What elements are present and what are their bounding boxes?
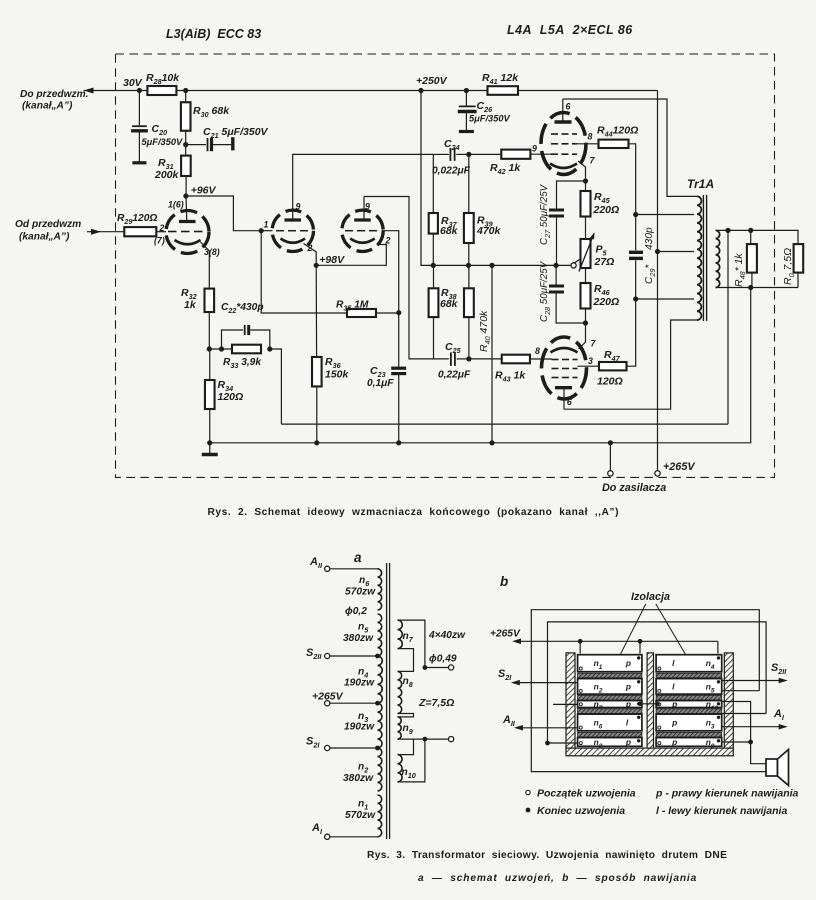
- wire: B+ vertical from R41 to +265V terminal: [657, 91, 659, 471]
- wire: V3 anode feed line: [364, 197, 449, 359]
- svg-text:470k: 470k: [476, 225, 502, 237]
- resistor R33 3.9k: [232, 345, 261, 354]
- transformer Tr1A primary winding: [697, 196, 701, 320]
- node: C22 left junction: [219, 346, 224, 351]
- wire: R47 to C29 vertical: [627, 299, 636, 366]
- svg-text:+96V: +96V: [191, 185, 217, 197]
- wire: n10 top jog: [398, 739, 414, 755]
- node: R35/C23/V3-grid junction: [396, 310, 401, 315]
- svg-text:190zw: 190zw: [344, 678, 375, 689]
- svg-text:5μF/350V: 5μF/350V: [142, 137, 184, 147]
- svg-text:380zw: 380zw: [343, 633, 374, 644]
- speaker symbol: [766, 759, 778, 776]
- wire: n9 end to speaker junction: [722, 741, 751, 743]
- capacitor C23 0.1uF: [398, 313, 400, 368]
- svg-text:190zw: 190zw: [344, 722, 375, 733]
- resistor R29 120ohm: [124, 227, 156, 236]
- svg-text:+98V: +98V: [319, 254, 345, 266]
- wire: outer loop 2: [548, 622, 767, 743]
- svg-text:9: 9: [296, 202, 301, 212]
- svg-text:C26: C26: [477, 100, 494, 114]
- wire: n8 bottom to n9 top jog: [398, 714, 414, 717]
- svg-text:S2II: S2II: [771, 662, 787, 676]
- svg-text:b: b: [500, 574, 508, 589]
- svg-text:C24: C24: [444, 138, 460, 152]
- svg-text:C21 5μF/350V: C21 5μF/350V: [203, 126, 269, 140]
- svg-text:p: p: [671, 717, 677, 727]
- winding layer n7 left stack: [578, 701, 642, 708]
- svg-text:R47: R47: [604, 349, 621, 363]
- wire: ground bus: [210, 442, 752, 444]
- svg-text:Tr1A: Tr1A: [687, 177, 714, 191]
- terminal: secondary tap 1: [423, 665, 428, 670]
- svg-text:30V: 30V: [123, 77, 143, 89]
- svg-text:1k: 1k: [184, 299, 197, 311]
- svg-text:2: 2: [159, 223, 165, 233]
- winding layer n10 right stack: [656, 701, 722, 708]
- pentode V4 grid dashes g1: [551, 153, 558, 155]
- resistor R32 1k: [205, 289, 215, 312]
- terminal: +265V pin: [655, 471, 660, 476]
- wire: n3 layer left stub: [553, 703, 578, 705]
- core bobbin hatched left leg: [566, 653, 575, 748]
- wire: V1 cathode to R32: [201, 242, 210, 289]
- wire: loop1 into n5 end: [722, 690, 759, 692]
- svg-text:AI: AI: [311, 822, 323, 836]
- resistor R47 120ohm: [599, 362, 627, 370]
- svg-text:AII: AII: [309, 556, 323, 570]
- svg-text:220Ω: 220Ω: [593, 204, 620, 216]
- wire: outer loop 1: [531, 610, 766, 772]
- svg-text:n8: n8: [403, 676, 413, 689]
- pentode V5 anode bar and bottom lead pin 6: [555, 386, 572, 389]
- svg-text:C25: C25: [445, 341, 462, 355]
- svg-text:Koniec uzwojenia: Koniec uzwojenia: [537, 805, 625, 817]
- svg-text:C23: C23: [370, 365, 386, 379]
- insulation layer left 4: [578, 732, 642, 737]
- svg-text:R35 1M: R35 1M: [336, 300, 369, 313]
- svg-text:p: p: [625, 737, 631, 747]
- svg-text:S2I: S2I: [498, 668, 512, 682]
- wire: R43 to lower pentode grid: [530, 358, 552, 360]
- svg-text:R30 68k: R30 68k: [193, 105, 230, 119]
- wire: wiper line to P5: [571, 260, 580, 266]
- svg-text:R45: R45: [594, 191, 611, 205]
- winding layer n8 left stack: [578, 738, 642, 747]
- svg-text:p - prawy kierunek nawijania: p - prawy kierunek nawijania: [655, 788, 799, 800]
- capacitor C27 50uF/25V: [549, 209, 564, 212]
- svg-text:+265V: +265V: [663, 461, 695, 473]
- svg-text:R46: R46: [594, 283, 611, 297]
- core bobbin hatched centre leg: [647, 653, 653, 748]
- winding n9 secondary: [398, 717, 402, 739]
- node: centre tap at B+ vertical: [655, 249, 660, 254]
- wire: V3 cathode to +98V row: [316, 245, 386, 266]
- node: ground bus left end: [207, 440, 212, 445]
- svg-text:p: p: [625, 681, 631, 691]
- resistor R28 10k: [147, 86, 176, 95]
- winding layer n2 left stack: [578, 679, 642, 695]
- wire: cathode node to C22/R33 branch: [209, 348, 232, 350]
- svg-text:C27 50μF/25V: C27 50μF/25V: [539, 183, 552, 245]
- terminal S2II arrow right: [722, 680, 783, 682]
- node: C23 at ground bus: [396, 440, 401, 445]
- node: R37/R38 junction: [431, 263, 436, 268]
- svg-text:p: p: [625, 658, 631, 668]
- svg-text:R36: R36: [325, 356, 342, 370]
- svg-text:68k: 68k: [440, 298, 459, 310]
- capacitor C21 5uF/350V: [186, 144, 206, 146]
- svg-text:4×40zw: 4×40zw: [428, 630, 466, 641]
- triode V3 L3 envelope: [342, 210, 383, 251]
- wire: n10 end to speaker junction: [722, 702, 751, 743]
- svg-text:430p: 430p: [644, 227, 655, 250]
- pentode V4 anode bar and top lead pin 6: [555, 120, 572, 123]
- svg-text:R43 1k: R43 1k: [495, 370, 526, 384]
- capacitor C26 5uF/350V with chassis bar: [465, 91, 467, 106]
- insulation layer right 3: [656, 709, 722, 714]
- node: R30/R31/C21 junction: [183, 142, 188, 147]
- wire: V2 grid to R35: [261, 231, 347, 313]
- node: R39/R40 junction: [466, 263, 471, 268]
- wire: V4 anode top line to transformer: [563, 99, 697, 196]
- capacitor C28 50uF/25V: [555, 265, 557, 284]
- svg-text:3: 3: [588, 356, 593, 366]
- wire: R44 to C29 vertical: [629, 144, 636, 215]
- svg-text:Do przedwzm.: Do przedwzm.: [20, 89, 89, 100]
- svg-text:p: p: [671, 699, 677, 709]
- wire: row ground branch down to bus: [491, 265, 493, 442]
- svg-text:Początek uzwojenia: Początek uzwojenia: [537, 788, 636, 800]
- capacitor C24 0.022uF: [433, 153, 448, 155]
- svg-text:1: 1: [264, 220, 269, 230]
- pentode V5 grid dashes g3: [552, 377, 559, 379]
- winding n6 570zw: [378, 569, 382, 610]
- triode V2 L3 envelope: [272, 210, 313, 251]
- insulation layer left 2: [578, 695, 642, 700]
- node: R48 top junction: [748, 228, 753, 233]
- svg-text:120Ω: 120Ω: [597, 376, 623, 388]
- wire: secondary bottom wire: [716, 287, 798, 289]
- svg-text:C29*: C29*: [644, 264, 657, 284]
- svg-text:9: 9: [532, 144, 537, 154]
- wire: NFB vertical from secondary to feedback line: [727, 230, 729, 424]
- svg-text:Z=7,5Ω: Z=7,5Ω: [418, 697, 454, 709]
- capacitor C29* 430p across screen taps: [635, 215, 637, 251]
- node: R33 right junction: [267, 346, 272, 351]
- wire: R42 to upper pentode grid: [530, 153, 552, 155]
- transformer Tr1A core: [702, 195, 704, 321]
- winding n1 570zw: [378, 795, 382, 837]
- svg-text:AI: AI: [773, 708, 785, 722]
- insulation layer right 2: [656, 695, 722, 700]
- resistor R48* 1k: [750, 230, 752, 244]
- svg-text:R33 3,9k: R33 3,9k: [223, 357, 262, 370]
- svg-text:+265V: +265V: [490, 629, 521, 640]
- svg-text:(kanał„A”): (kanał„A”): [19, 232, 70, 243]
- wire: n7 bottom to n8 top jog: [398, 649, 414, 672]
- svg-text:(7): (7): [154, 236, 165, 246]
- legend: poczatek uzwojenia: [526, 790, 530, 794]
- capacitor C22* 430p parallel loop: [222, 330, 244, 349]
- triode V3 cathode arc: [350, 239, 375, 243]
- wire: n9 bottom to terminal 2: [398, 738, 425, 740]
- svg-text:9: 9: [365, 202, 370, 212]
- node: +250V feed junction: [418, 88, 423, 93]
- svg-text:n10: n10: [402, 767, 416, 780]
- wire: V2 cathode to +98V node: [304, 244, 317, 266]
- node: C24/R39/R42 junction: [466, 152, 471, 157]
- resistor R39 470k: [468, 154, 470, 213]
- wire: V5 cathode pin 7 to bias node: [579, 323, 586, 349]
- svg-text:l - lewy kierunek nawijania: l - lewy kierunek nawijania: [656, 805, 787, 817]
- node: C27/C28 junction: [554, 263, 559, 268]
- capacitor C20 5uF/350V with chassis bar: [138, 91, 140, 126]
- svg-text:C22*430p: C22*430p: [221, 302, 264, 315]
- resistor R31 200k: [185, 145, 187, 156]
- wire: V5 anode line to transformer: [564, 320, 697, 409]
- resistor R36 150k: [315, 265, 317, 357]
- core bobbin hatched bottom bar: [566, 748, 733, 756]
- svg-text:R44120Ω: R44120Ω: [597, 125, 638, 139]
- resistor R41 12k: [488, 86, 519, 95]
- legend: koniec uzwojenia: [526, 808, 531, 813]
- svg-text:C20: C20: [152, 123, 168, 137]
- svg-text:27Ω: 27Ω: [594, 256, 615, 268]
- terminal: secondary tap 2: [423, 737, 428, 742]
- terminal: Do zasilacza pin: [609, 443, 611, 471]
- wire: input from preamp with arrow Od przedwzm: [87, 231, 124, 233]
- node: +98V cathode node: [314, 263, 319, 268]
- insulation layer left 3: [578, 709, 642, 714]
- transformer Tr1A secondary winding: [716, 230, 720, 287]
- wire: divider row to wiper: [433, 264, 571, 266]
- triode V1 cathode arc: [175, 240, 201, 244]
- dashed enclosure border of amplifier unit: [116, 54, 775, 477]
- insulation layer left 1: [578, 673, 642, 678]
- insulation layer right 4: [656, 732, 722, 737]
- pentode V4 grid dashes g3: [551, 133, 558, 135]
- svg-text:+250V: +250V: [416, 75, 448, 87]
- svg-text:Od przedwzm: Od przedwzm: [15, 219, 81, 230]
- node: 30V junction: [137, 88, 142, 93]
- wire: V2 grid dash-dot line: [261, 230, 272, 232]
- pentode V5 ECL86 envelope: [542, 337, 587, 399]
- wire: upper screen tap line: [636, 214, 694, 216]
- svg-text:a: a: [354, 550, 362, 565]
- svg-text:220Ω: 220Ω: [593, 296, 620, 308]
- winding layer n6 left stack: [578, 714, 642, 731]
- wire: +250V feed vertical to divider row: [421, 91, 433, 266]
- svg-text:R48* 1k: R48* 1k: [733, 253, 747, 287]
- wire: n7 top to terminal bus: [398, 620, 425, 667]
- svg-text:5μF/350V: 5μF/350V: [469, 114, 511, 124]
- svg-text:8: 8: [588, 132, 593, 142]
- winding n2 380zw: [378, 748, 382, 791]
- node: +265V branch to n1 start: [578, 639, 583, 644]
- svg-text:120Ω: 120Ω: [218, 391, 244, 403]
- wire: loop2 into n3 end: [722, 713, 766, 715]
- wire: n7 to n10 link across centre leg: [640, 703, 658, 705]
- wire: secondary bottom to ground bus: [750, 288, 752, 443]
- svg-text:0,1μF: 0,1μF: [367, 378, 394, 389]
- triode V1 anode electrode: [179, 220, 196, 223]
- wire: bias node to C27: [557, 181, 586, 209]
- node: row ground branch at bus: [489, 440, 494, 445]
- svg-text:L4A L5A 2×ECL 86: L4A L5A 2×ECL 86: [507, 23, 633, 37]
- wire: +265V line down to n4 end: [717, 641, 719, 653]
- svg-text:R40 470k: R40 470k: [478, 310, 492, 352]
- svg-text:Rys. 2. Schemat ideowy wzm: Rys. 2. Schemat ideowy wzmacniacza końco…: [208, 507, 620, 518]
- triode V2 cathode arc: [281, 239, 306, 243]
- winding n7 secondary: [398, 620, 403, 649]
- svg-text:R41 12k: R41 12k: [482, 72, 519, 86]
- wire: lower screen tap line: [636, 298, 694, 300]
- svg-text:n9: n9: [403, 723, 413, 736]
- triode V2 anode electrode: [285, 218, 302, 221]
- svg-text:a — schemat uzwojeń, b —: a — schemat uzwojeń, b — sposób nawijani…: [418, 873, 697, 884]
- wire: output to preamp (30V node) with arrow Do przedwzm.: [84, 90, 148, 92]
- svg-text:R42 1k: R42 1k: [490, 162, 521, 176]
- capacitor C25 0.22uF: [448, 358, 450, 360]
- resistor R37 68k: [432, 154, 434, 213]
- triode V3 anode electrode: [354, 218, 371, 221]
- node: R32/R34/R33 junction: [207, 346, 212, 351]
- node: upper screen tap junction: [633, 212, 638, 217]
- node: lower screen tap junction: [633, 296, 638, 301]
- node: R48 bottom junction: [748, 285, 753, 290]
- resistor R42 1k: [469, 153, 502, 155]
- wire: V5 screen g2 to R47 pin 3: [578, 365, 600, 367]
- svg-text:1(6): 1(6): [168, 200, 184, 210]
- insulation layer right 1: [656, 673, 722, 678]
- triode V1 grid dashes: [168, 231, 177, 233]
- wire: coupling V2 anode line to C24 row: [293, 154, 434, 196]
- wire: centre tap line to B+: [658, 251, 695, 253]
- winding layer n4 right stack: [656, 655, 722, 672]
- node: speaker feed junction: [748, 740, 753, 745]
- svg-text:150k: 150k: [325, 369, 350, 381]
- svg-text:200k: 200k: [154, 169, 180, 181]
- resistor R35 1M: [347, 309, 376, 317]
- transformer T2 core lines: [386, 563, 388, 839]
- svg-text:8: 8: [535, 346, 540, 356]
- wire: R41 to B+ vertical: [518, 90, 658, 92]
- terminal AI arrow right: [722, 726, 783, 728]
- resistor R34 120ohm: [205, 380, 215, 409]
- node: V2 grid node: [259, 228, 264, 233]
- winding layer n9 right stack: [656, 738, 722, 747]
- node: R28/R30 junction: [183, 88, 188, 93]
- pentode V4 ECL86 envelope: [541, 113, 586, 175]
- winding n3 190zw: [378, 703, 382, 748]
- svg-text:570zw: 570zw: [345, 810, 376, 821]
- resistor R45 220ohm: [585, 181, 587, 191]
- svg-text:AII: AII: [502, 714, 516, 728]
- wire: n10 bottom to terminal 2 bus: [398, 739, 425, 782]
- resistor R46 220ohm: [585, 268, 587, 283]
- winding n8 secondary: [398, 671, 402, 713]
- winding n5 380zw: [378, 614, 382, 656]
- wire: V4 screen g2 to R44 pin 8: [577, 143, 599, 145]
- winding layer n3 right stack: [656, 714, 722, 731]
- svg-text:n7: n7: [403, 631, 414, 644]
- pentode V5 grid dashes g2: [552, 368, 559, 370]
- core bobbin hatched right leg: [724, 653, 733, 748]
- wire: junction down to speaker: [751, 742, 766, 764]
- svg-text:Rys. 3. Transformator sieci: Rys. 3. Transformator sieciowy. Uzwojeni…: [367, 850, 727, 861]
- node: V5 cathode bias node: [583, 320, 588, 325]
- potentiometer P5 27ohm: [581, 239, 591, 268]
- svg-text:6: 6: [566, 102, 571, 112]
- resistor R38 68k: [429, 288, 439, 317]
- svg-text:C28 50μF/25V: C28 50μF/25V: [539, 260, 552, 322]
- node: V4 cathode bias node: [583, 178, 588, 183]
- svg-text:P5: P5: [596, 244, 608, 258]
- svg-text:6: 6: [567, 397, 572, 407]
- node: C26 junction on rail: [464, 88, 469, 93]
- svg-text:0,022μF: 0,022μF: [432, 166, 471, 177]
- svg-text:p: p: [671, 737, 677, 747]
- svg-text:p: p: [625, 699, 631, 709]
- wire: NFB branch from R33 to feedback line: [270, 349, 282, 424]
- svg-text:R0 7,5Ω: R0 7,5Ω: [782, 248, 796, 285]
- svg-text:ϕ0,2: ϕ0,2: [345, 606, 367, 617]
- winding n10 secondary: [398, 755, 403, 782]
- wire: +250V rail from R28 to R41: [176, 90, 487, 92]
- wire: V3 grid dash-dot line: [345, 230, 353, 232]
- node: +96V anode node of V1: [183, 193, 188, 198]
- wire: R35 to C23 node: [376, 312, 399, 314]
- svg-text:L3(AiB) ECC 83: L3(AiB) ECC 83: [166, 27, 261, 41]
- ground symbol: [209, 443, 211, 453]
- resistor R43 1k: [469, 358, 501, 360]
- node: C25/R40/R43 junction: [466, 356, 471, 361]
- svg-text:0,22μF: 0,22μF: [438, 370, 471, 381]
- wire: R29 to V1 grid: [156, 231, 166, 233]
- svg-text:570zw: 570zw: [345, 587, 376, 598]
- winding layer n5 right stack: [656, 679, 722, 695]
- resistor R0 7.5ohm speaker load: [794, 244, 804, 273]
- svg-text:7: 7: [591, 339, 597, 349]
- node: ground branch junction on row: [489, 263, 494, 268]
- resistor R44 120ohm: [599, 140, 629, 148]
- resistor R40 470k label vertical: [464, 288, 474, 317]
- wire: coupling V1 anode to V2 grid: [186, 196, 261, 231]
- pentode V4 cathode arc: [550, 164, 577, 169]
- svg-text:R29120Ω: R29120Ω: [117, 213, 157, 226]
- svg-text:ϕ0,49: ϕ0,49: [429, 654, 457, 665]
- triode V1 L3 envelope: [166, 211, 209, 254]
- resistor R30 68k: [185, 91, 187, 103]
- svg-text:(kanał„A”): (kanał„A”): [22, 101, 73, 112]
- wire: negative feedback line: [281, 423, 728, 425]
- pentode V5 cathode arc: [551, 348, 578, 353]
- node: loop2 branch to n8 layer: [545, 741, 550, 746]
- svg-text:7: 7: [590, 156, 596, 166]
- pentode V4 grid dashes g2: [551, 143, 558, 145]
- svg-text:R2810k: R2810k: [146, 72, 180, 86]
- node: NFB takeoff on secondary top: [725, 228, 730, 233]
- wire: secondary top to R48/R0 loop: [716, 230, 798, 244]
- pentode V5 grid dashes g1: [552, 359, 559, 361]
- svg-text:68k: 68k: [440, 225, 459, 237]
- svg-text:380zw: 380zw: [343, 773, 374, 784]
- wire: n1 end stub to +265V line: [639, 641, 641, 653]
- svg-text:S2I: S2I: [306, 736, 320, 750]
- terminal: P5 wiper circle: [571, 263, 576, 268]
- svg-text:S2II: S2II: [306, 647, 322, 661]
